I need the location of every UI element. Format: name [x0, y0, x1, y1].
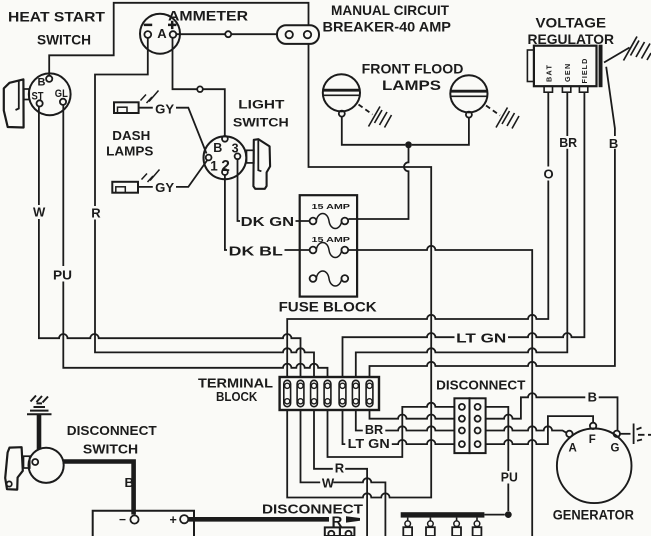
front flood lamp left [323, 74, 360, 111]
svg-text:VOLTAGE: VOLTAGE [536, 15, 607, 31]
svg-text:W: W [33, 205, 46, 220]
wire B: terminal block T7 up, bus row right, up to voltage regulator case (label gap) [370, 67, 615, 378]
svg-text:DISCONNECT: DISCONNECT [436, 378, 525, 393]
wire: front flood lamps to junction and down to fuse block [342, 117, 469, 219]
dash lamp lower [112, 170, 159, 193]
svg-text:MANUAL CIRCUIT: MANUAL CIRCUIT [331, 2, 449, 18]
svg-text:15 AMP: 15 AMP [312, 202, 351, 211]
wire GY: dash lamp lower to light switch terminal 1 [138, 161, 207, 187]
svg-text:GENERATOR: GENERATOR [553, 508, 635, 523]
svg-text:BR: BR [559, 135, 577, 150]
junction node of flood lamp wires [405, 141, 412, 148]
battery negative terminal [130, 515, 138, 523]
svg-text:B: B [38, 76, 46, 88]
svg-text:LT GN: LT GN [456, 331, 506, 346]
label PU heat start wire [53, 268, 72, 283]
disconnect pin row 1 right [475, 404, 481, 410]
svg-text:B: B [609, 136, 618, 151]
disconnect pin row 2 right [475, 416, 481, 422]
manual circuit breaker body [277, 25, 319, 44]
disconnect pin row 3 right [475, 428, 481, 434]
svg-text:FIELD: FIELD [580, 58, 589, 84]
wire: terminal block T7 down, right to disconnect row 2 [370, 410, 455, 419]
circuit breaker terminal 1 [286, 31, 293, 38]
wire BR: terminal block T6 down, right (label gap) to disconnect row 3 [356, 410, 455, 431]
label B generator wire [588, 390, 597, 405]
wire B: disconnect row 2 right, up, across (label gap) to generator terminal G [486, 393, 618, 431]
svg-text:FUSE BLOCK: FUSE BLOCK [279, 300, 377, 315]
label W wire to disconnect [322, 476, 335, 491]
light switch terminal 3 [235, 153, 241, 159]
wire: disconnect row 4 right, up, across, down to generator terminal F [486, 416, 593, 444]
wire W: heat start ST terminal down (label gap) then right to terminal block T2 [39, 107, 301, 378]
fuse 2 15 AMP [310, 235, 350, 258]
label W heat start wire [33, 205, 46, 220]
svg-text:R: R [91, 206, 101, 221]
generator terminal F [590, 423, 596, 429]
wire R: ammeter minus terminal down, left, down (label gap), right to terminal block T3 [95, 38, 314, 378]
svg-text:W: W [322, 476, 335, 491]
svg-text:R: R [332, 514, 343, 531]
thick cable: disconnect switch arm to ground [37, 414, 42, 450]
wire PU: disconnect row 1 right then down (label gap) to bus bar junction [486, 407, 509, 511]
disconnect pin row 4 left [459, 441, 465, 447]
wire: generator terminal G to ground [620, 433, 631, 435]
svg-text:SWITCH: SWITCH [37, 32, 91, 48]
label BR regulator GEN wire [559, 135, 577, 150]
label AMMETER [168, 8, 248, 24]
light switch lever [247, 139, 271, 189]
light switch terminal B [222, 136, 228, 142]
light switch body [204, 136, 247, 179]
svg-text:LT GN: LT GN [348, 436, 390, 451]
label DASH LAMPS [106, 128, 154, 159]
heat start switch terminal GL [60, 99, 66, 105]
svg-text:DISCONNECT: DISCONNECT [262, 502, 363, 517]
svg-text:R: R [335, 461, 345, 476]
thick cable: disconnect switch to battery negative terminal, labelled B [63, 462, 134, 515]
label DK BL [229, 244, 283, 259]
label BR at disconnect [365, 422, 384, 437]
label GENERATOR [553, 508, 635, 523]
label O regulator BAT wire [544, 167, 554, 182]
svg-text:PU: PU [53, 268, 72, 283]
svg-text:BLOCK: BLOCK [216, 389, 258, 404]
disconnect switch terminal [32, 459, 38, 465]
svg-text:PU: PU [501, 470, 518, 485]
disconnect pin row 1 left [459, 404, 465, 410]
ammeter plus terminal [170, 31, 177, 38]
front flood lamp left adjuster dashed link [359, 105, 373, 115]
bus bar with terminals [401, 512, 485, 536]
connector lug on cable R [346, 516, 360, 522]
front flood lamp right adjuster dashed link [486, 106, 500, 116]
label VOLTAGE REGULATOR [528, 15, 615, 48]
ammeter minus terminal [144, 31, 151, 38]
connector in ammeter-breaker wire [225, 31, 231, 37]
disconnect connector body (middle) [454, 398, 485, 453]
svg-text:B: B [588, 390, 597, 405]
label DISCONNECT middle [436, 378, 525, 393]
svg-text:BR: BR [365, 422, 384, 437]
svg-text:DK GN: DK GN [241, 214, 294, 229]
wire R: terminal block T3 down, right (label gap), down to bottom edge [314, 410, 367, 536]
front flood lamp right [450, 75, 487, 112]
heat start switch terminal B [46, 76, 52, 82]
ground symbol at left flood lamp [369, 107, 392, 128]
svg-text:B: B [125, 475, 134, 490]
wire: circuit breaker output down, right, long drop to terminal block T1 bottom rail [287, 44, 431, 498]
svg-text:F: F [589, 434, 596, 446]
fuse 1 15 AMP [310, 202, 350, 229]
battery positive terminal [180, 515, 188, 523]
label B regulator case wire [609, 136, 618, 151]
svg-text:SWITCH: SWITCH [83, 442, 138, 457]
wire: terminal block T4 down, right, up to disconnect row 1 [328, 403, 455, 457]
connector in ammeter-light switch wire [197, 86, 203, 92]
front flood lamp right terminal [466, 112, 472, 118]
wire GY: dash lamp upper to light switch terminal 1 [139, 108, 207, 154]
fuse 3 spare [310, 271, 349, 286]
svg-text:A: A [569, 443, 577, 455]
generator body [557, 429, 632, 504]
thick cable R: battery positive terminal to disconnect lug [188, 517, 329, 522]
disconnect pin row 4 right [475, 441, 481, 447]
svg-text:AMMETER: AMMETER [168, 8, 248, 24]
svg-text:GY: GY [155, 102, 174, 117]
svg-text:BREAKER-40 AMP: BREAKER-40 AMP [323, 19, 452, 35]
wire: disconnect row 3 right to generator terminal A [486, 426, 567, 432]
wire W: terminal block T2 down, right (label gap), down to battery disconnect plug [301, 410, 386, 536]
heat start switch terminal ST [37, 100, 43, 106]
svg-text:O: O [544, 167, 554, 182]
wire LT GN: terminal block T5 down, right (label gap) to disconnect row 4 [343, 410, 455, 444]
wire LT GN: terminal block T5 up, bus row right (label gap) to voltage regulator FIELD wire [343, 93, 585, 378]
label R wire to disconnect [335, 461, 345, 476]
svg-text:1: 1 [210, 159, 218, 174]
label HEAT START SWITCH [8, 9, 105, 48]
wire B: heat start switch terminal B up and across top to circuit breaker [49, 3, 308, 76]
svg-text:LAMPS: LAMPS [106, 144, 154, 159]
wire: ammeter plus terminal to connector to circuit breaker [177, 33, 278, 35]
generator terminal A [566, 431, 572, 437]
svg-text:DK BL: DK BL [229, 244, 283, 259]
voltage regulator body [527, 45, 602, 92]
svg-text:DASH: DASH [112, 128, 150, 143]
svg-text:B: B [213, 141, 222, 155]
svg-text:DISCONNECT: DISCONNECT [67, 423, 157, 438]
disconnect switch body [28, 448, 63, 483]
svg-text:BAT: BAT [545, 64, 554, 82]
svg-text:REGULATOR: REGULATOR [528, 31, 615, 47]
light switch terminal 2 [222, 169, 228, 175]
wire BR: terminal block T6 up, bus row right, up to voltage regulator GEN terminal (label gap) [356, 93, 568, 378]
svg-text:A: A [157, 26, 167, 41]
generator terminal G [614, 431, 620, 437]
svg-text:LIGHT: LIGHT [238, 98, 285, 112]
heat start switch body [29, 73, 71, 115]
junction node at PU wire and bus bar [505, 511, 512, 518]
label TERMINAL BLOCK [198, 376, 273, 405]
svg-text:FRONT FLOOD: FRONT FLOOD [362, 61, 464, 77]
svg-text:SWITCH: SWITCH [233, 116, 289, 130]
label GY upper [155, 102, 174, 117]
svg-text:LAMPS: LAMPS [382, 77, 441, 93]
wire: fuse 2 output right then long drop down right side to bottom edge [348, 246, 532, 536]
disconnect switch lever [5, 447, 30, 489]
label R battery cable [332, 514, 343, 531]
fuse block body [300, 195, 357, 296]
label GY lower [155, 180, 174, 195]
ammeter body [140, 14, 180, 54]
ground symbol at right flood lamp [496, 108, 519, 129]
label R ammeter wire [91, 206, 101, 221]
battery body [93, 511, 194, 536]
front flood lamp left terminal [339, 111, 345, 117]
svg-text:HEAT START: HEAT START [8, 9, 105, 25]
label LIGHT SWITCH [233, 98, 289, 130]
label MANUAL CIRCUIT BREAKER-40 AMP [323, 2, 452, 35]
disconnect connector body (bottom) [325, 527, 355, 536]
label LT GN on bus row [456, 331, 506, 346]
wire: bus bar to junction dot joining PU wire [484, 514, 504, 516]
ground symbol at disconnect switch [27, 396, 52, 415]
label FRONT FLOOD LAMPS [362, 61, 464, 94]
svg-text:−: − [119, 512, 126, 526]
wire O: voltage regulator BAT terminal down (label gap) then bus row left to terminal block T1 [287, 93, 548, 378]
wire: ammeter plus down, through connector, to light switch terminal B [173, 38, 225, 136]
label DISCONNECT bottom [262, 502, 363, 517]
heat start switch lever [4, 79, 29, 127]
label DISCONNECT SWITCH [67, 423, 157, 457]
wire: voltage regulator case to ground [604, 48, 630, 63]
light switch terminal 1 [206, 155, 212, 161]
dash lamp upper [114, 91, 159, 114]
label B battery cable [125, 475, 134, 490]
svg-text:15 AMP: 15 AMP [312, 235, 351, 244]
terminal block body [280, 377, 379, 410]
wire DK BL: light switch terminal 2 down, label gap, to fuse 2 [225, 175, 310, 250]
svg-text:GY: GY [155, 180, 174, 195]
svg-text:G: G [611, 443, 620, 455]
wire PU: heat start GL terminal down (label gap) then right to terminal block T4 [63, 105, 327, 378]
ground symbol at generator [634, 424, 651, 445]
circuit breaker terminal 2 [304, 31, 311, 38]
svg-text:GEN: GEN [563, 63, 572, 82]
label DK GN [241, 214, 294, 229]
wire DK GN: light switch terminal 3 down, label gap, to fuse 1 [238, 159, 310, 221]
label LT GN at disconnect [348, 436, 390, 451]
ground symbol at voltage regulator [624, 37, 651, 61]
svg-text:+: + [170, 513, 177, 527]
disconnect pin row 2 left [459, 416, 465, 422]
disconnect pin row 3 left [459, 428, 465, 434]
label PU wire [501, 470, 518, 485]
label FUSE BLOCK [279, 300, 377, 315]
